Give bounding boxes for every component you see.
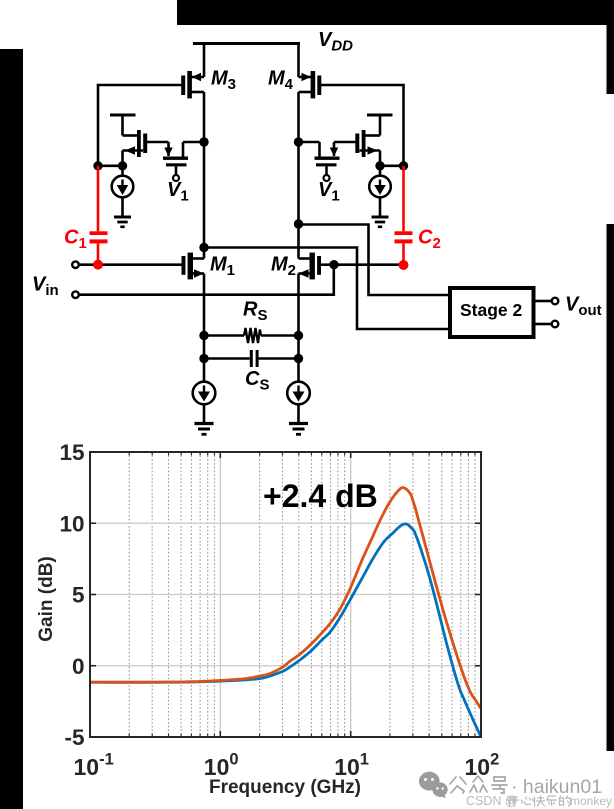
wire Vout-: [536, 321, 559, 328]
chart x tick labels: [74, 751, 500, 781]
wire M1 drain to Stage 2 lower input: [204, 248, 450, 330]
watermark wechat icon: [419, 772, 448, 799]
svg-text:Vout: Vout: [565, 294, 602, 320]
VDD rail wire: [193, 42, 300, 45]
chart y tick labels: [59, 440, 84, 750]
svg-text:RS: RS: [243, 299, 267, 325]
top black bar: [177, 0, 614, 25]
wire Vin+ to M1 gate: [79, 263, 182, 266]
svg-text:10-1: 10-1: [74, 751, 114, 781]
wire VDD to M4 source: [297, 44, 300, 78]
wire M3 drain down to M1 drain: [203, 92, 206, 248]
ground right tail: [289, 424, 308, 435]
resistor RS: [204, 299, 299, 344]
ground left tail: [195, 424, 214, 435]
transistor Mb left (V1 cascode NMOS): [163, 142, 204, 166]
Stage 2 block: [450, 288, 534, 337]
Vin label: [32, 274, 59, 300]
chart y axis label Gain (dB): [36, 556, 57, 642]
current source I1 (left aux): [112, 166, 134, 217]
node dot left aux A: [93, 161, 102, 170]
svg-text:15: 15: [59, 440, 84, 465]
node dot C1 tap (red, over wire): [93, 260, 103, 270]
right black bar lower segment: [607, 224, 614, 751]
node dot M1 source RS rail: [199, 331, 208, 340]
node dot M4 drain / Md drain: [294, 137, 303, 146]
wire M1 source down: [203, 336, 206, 382]
svg-text:M1: M1: [210, 254, 235, 280]
wire M2 source down: [297, 336, 300, 382]
wire VDD to M3 source: [203, 44, 206, 78]
svg-text:V1: V1: [318, 179, 340, 205]
svg-text:M4: M4: [268, 68, 294, 94]
svg-text:M3: M3: [211, 68, 236, 94]
ground right aux: [372, 217, 389, 227]
node dot M1 drain: [199, 243, 208, 252]
wire Vin- to M2 gate: [79, 265, 334, 295]
transistor M4: [268, 68, 321, 99]
wire M4 drain tap to Stage 2 upper input: [299, 225, 451, 296]
svg-text:0: 0: [72, 654, 85, 679]
node dot M4 drain tap: [294, 219, 303, 228]
current source I2 (right aux): [369, 166, 391, 217]
svg-text:100: 100: [204, 751, 239, 781]
svg-text:CS: CS: [245, 368, 269, 394]
wire M2 gate to C2: [334, 263, 404, 266]
wire M4 drain down to M2 drain: [297, 92, 300, 259]
transistor M1: [182, 248, 236, 336]
wire left aux node: [98, 165, 123, 168]
capacitor CS: [204, 350, 299, 394]
chart x axis label Frequency (GHz): [209, 777, 361, 798]
Vin+ terminal: [72, 261, 79, 268]
capacitor C2 (red): [395, 166, 441, 270]
svg-text:VDD: VDD: [318, 29, 353, 55]
current source I3 (left tail): [193, 382, 216, 423]
transistor Md right (V1 cascode NMOS): [299, 142, 340, 166]
current source I4 (right tail): [287, 382, 310, 423]
right black bar upper segment: [607, 0, 614, 94]
watermark CSDN text: [466, 794, 612, 808]
node dot right aux A: [399, 161, 408, 170]
svg-text:Stage 2: Stage 2: [460, 300, 523, 320]
svg-text:5: 5: [72, 583, 85, 608]
node dot left aux B: [118, 161, 127, 170]
left aux bias T-stub: [110, 115, 137, 136]
node dot M2 gate: [329, 260, 338, 269]
node dot CS rail left: [199, 354, 208, 363]
svg-text:Gain (dB): Gain (dB): [36, 556, 57, 642]
wire right aux node: [380, 165, 404, 168]
svg-text:C1: C1: [64, 227, 87, 253]
svg-text:+2.4 dB: +2.4 dB: [263, 478, 378, 514]
transistor M2: [271, 253, 334, 336]
wire M4 gate to right aux node: [319, 85, 404, 166]
V1 terminal left: [173, 166, 179, 181]
chart blue curve: [90, 524, 481, 737]
svg-text:-5: -5: [64, 725, 84, 750]
svg-text:10: 10: [59, 511, 84, 536]
right aux bias T-stub: [366, 115, 393, 136]
chart orange curve: [90, 488, 481, 709]
svg-text:M2: M2: [271, 254, 296, 280]
svg-text:monkey: monkey: [570, 794, 612, 808]
left black bar: [0, 49, 23, 809]
node dot CS rail right: [294, 354, 303, 363]
transistor Mc right (aux PMOS): [334, 130, 380, 166]
Vout label: [565, 294, 602, 320]
chart axes box: [90, 452, 481, 737]
node dot M2 source RS rail: [294, 331, 303, 340]
node VDD label: [318, 29, 353, 55]
watermark text haikun01: [450, 776, 507, 793]
transistor Ma left (aux PMOS): [123, 130, 169, 166]
ground left aux: [114, 217, 131, 227]
chart grid: [90, 452, 481, 737]
V1 terminal right: [324, 166, 330, 181]
wire Vout+: [536, 298, 559, 305]
transistor M3: [181, 68, 236, 99]
svg-text:C2: C2: [418, 227, 441, 253]
capacitor C1 (red): [64, 166, 108, 270]
svg-text:V1: V1: [167, 179, 189, 205]
wire M3 gate to left aux node: [98, 85, 184, 166]
svg-text:Frequency (GHz): Frequency (GHz): [209, 777, 361, 798]
V1 label left: [167, 179, 189, 205]
svg-text:101: 101: [334, 751, 369, 781]
node dot right aux B: [375, 161, 384, 170]
Vin- terminal: [72, 291, 79, 298]
svg-text:Vin: Vin: [32, 274, 59, 300]
V1 label right: [318, 179, 340, 205]
node dot M3 drain / Mb drain: [199, 137, 208, 146]
svg-text:102: 102: [465, 751, 500, 781]
chart annotation +2.4 dB: [263, 478, 378, 514]
node dot C2 tap (red, over wire): [399, 260, 409, 270]
